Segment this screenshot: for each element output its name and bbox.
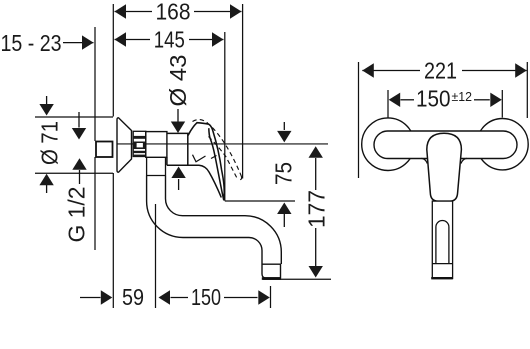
svg-text:59: 59 — [122, 284, 144, 310]
dimension 15-23 — [63, 35, 94, 49]
lever handle (solid, down position) — [188, 123, 224, 201]
escutcheon circle left — [362, 118, 415, 171]
svg-text:15 - 23: 15 - 23 — [1, 30, 62, 56]
svg-text:Ø 71: Ø 71 — [37, 121, 63, 165]
spout tube (side view S-curve) — [147, 176, 282, 265]
svg-text:Ø 43: Ø 43 — [165, 55, 191, 107]
dimension 150±12 — [389, 93, 502, 107]
spout collar column — [147, 157, 166, 175]
escutcheon circle right — [477, 119, 528, 170]
svg-text:221: 221 — [424, 58, 457, 84]
wire: 75 lower reference line at lever tip — [225, 200, 295, 202]
dimension 59 — [80, 290, 112, 304]
lever handle (dashed, raised position) — [193, 120, 242, 180]
wire: 150± left extension line — [387, 90, 389, 118]
dimension Ø43 (vertical leader with arrows) — [171, 109, 186, 190]
wire: 150 right extension line — [270, 286, 272, 308]
svg-text:145: 145 — [154, 27, 185, 53]
wire: 221 left extension line — [358, 62, 360, 178]
svg-text:150: 150 — [191, 284, 221, 310]
wire: Ø71 extension lines — [35, 116, 113, 118]
svg-text:168: 168 — [156, 0, 191, 25]
wire: pipe-end extension line (15-23) — [94, 27, 96, 141]
body-to-handle fillets (front) — [422, 158, 467, 163]
svg-text:G 1/2: G 1/2 — [64, 187, 90, 243]
wire: 145 extension line at lever tip — [224, 32, 226, 201]
wire: 150± right extension line — [501, 90, 503, 118]
mixer body (front, stadium) — [374, 131, 517, 159]
wire: extension line between 59 and 150 — [155, 204, 157, 308]
valve body (side view) — [146, 132, 167, 158]
dimension 221 — [362, 63, 526, 77]
dimension 150 (bottom) — [159, 290, 270, 304]
spout tip aerator — [262, 264, 281, 278]
dimension G1/2 leader arrows — [72, 112, 87, 184]
svg-text:150: 150 — [416, 86, 451, 112]
lever inner edge mark — [193, 155, 206, 162]
lever skirt — [167, 165, 221, 197]
svg-text:177: 177 — [304, 190, 330, 228]
escutcheon cone (side view) — [117, 118, 132, 172]
svg-text:75: 75 — [271, 162, 297, 185]
dimension Ø71 — [35, 96, 113, 193]
outlet pipe (front) — [431, 201, 453, 278]
cartridge housing Ø43 — [167, 133, 188, 165]
wire: wall extension line — [112, 4, 114, 117]
node: centerline of faucet — [117, 143, 328, 145]
dimension 145 — [115, 32, 224, 46]
dimension 177 — [309, 146, 323, 277]
dimension 168 — [115, 4, 242, 18]
pipe stub G1/2 square — [96, 142, 113, 158]
svg-text:±12: ±12 — [452, 89, 473, 104]
connection nut with stripes — [133, 131, 146, 156]
dimension 75 — [277, 122, 291, 227]
lever handle (front) — [427, 133, 462, 201]
wire: 168 extension line at raised lever tip — [242, 4, 244, 179]
wire: 221 right extension line — [526, 62, 528, 118]
